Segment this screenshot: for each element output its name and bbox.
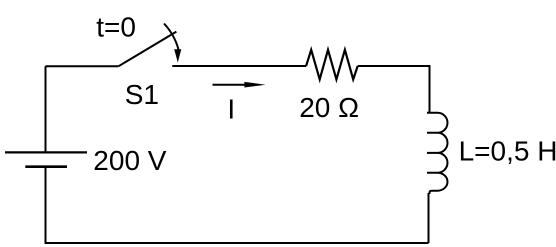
svg-text:200 V: 200 V <box>93 145 166 176</box>
battery 200V short plate <box>25 165 67 168</box>
current arrow line <box>213 84 253 86</box>
wire top-left horizontal <box>46 65 119 67</box>
svg-text:L=0,5 H: L=0,5 H <box>459 136 556 167</box>
wire left vertical upper <box>45 66 47 151</box>
wire left vertical lower <box>45 168 47 244</box>
svg-text:I: I <box>227 94 235 125</box>
wire top middle (contact to resistor) <box>172 65 306 67</box>
wire right vertical upper <box>429 65 431 113</box>
wire right vertical lower <box>428 193 430 243</box>
svg-text:20 Ω: 20 Ω <box>299 92 359 123</box>
switch S1 closing arc <box>164 24 179 50</box>
battery 200V long plate <box>5 151 87 153</box>
switch S1 blade <box>119 32 177 67</box>
svg-text:S1: S1 <box>125 79 159 110</box>
svg-text:t=0: t=0 <box>96 11 136 42</box>
wire top right (resistor to corner) <box>358 65 430 67</box>
switch S1 arrowhead <box>174 49 181 62</box>
wire bottom horizontal <box>45 242 429 244</box>
inductor L coil <box>427 113 448 194</box>
resistor 20ohm zigzag <box>306 50 358 80</box>
current arrowhead <box>244 82 265 88</box>
